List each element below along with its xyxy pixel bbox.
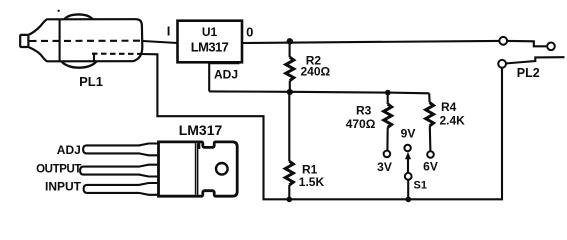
- svg-text:INPUT: INPUT: [45, 179, 82, 193]
- svg-text:0: 0: [246, 24, 253, 39]
- svg-text:240Ω: 240Ω: [301, 65, 331, 79]
- svg-text:ADJ: ADJ: [214, 68, 238, 82]
- svg-text:S1: S1: [414, 180, 427, 192]
- svg-text:PL1: PL1: [79, 74, 103, 89]
- svg-text:LM317: LM317: [179, 122, 223, 138]
- svg-text:LM317: LM317: [191, 39, 229, 54]
- svg-text:R4: R4: [441, 100, 457, 114]
- svg-text:OUTPUT: OUTPUT: [36, 163, 81, 175]
- svg-text:1.5K: 1.5K: [299, 175, 325, 189]
- svg-text:470Ω: 470Ω: [346, 117, 376, 131]
- svg-text:9V: 9V: [401, 127, 416, 141]
- svg-text:6V: 6V: [423, 160, 438, 174]
- svg-text:R3: R3: [356, 104, 372, 118]
- svg-text:I: I: [167, 24, 171, 39]
- svg-text:U1: U1: [202, 25, 218, 39]
- svg-text:ADJ: ADJ: [57, 143, 81, 157]
- svg-text:3V: 3V: [377, 160, 392, 174]
- svg-text:2.4K: 2.4K: [440, 114, 466, 128]
- svg-text:PL2: PL2: [517, 66, 540, 80]
